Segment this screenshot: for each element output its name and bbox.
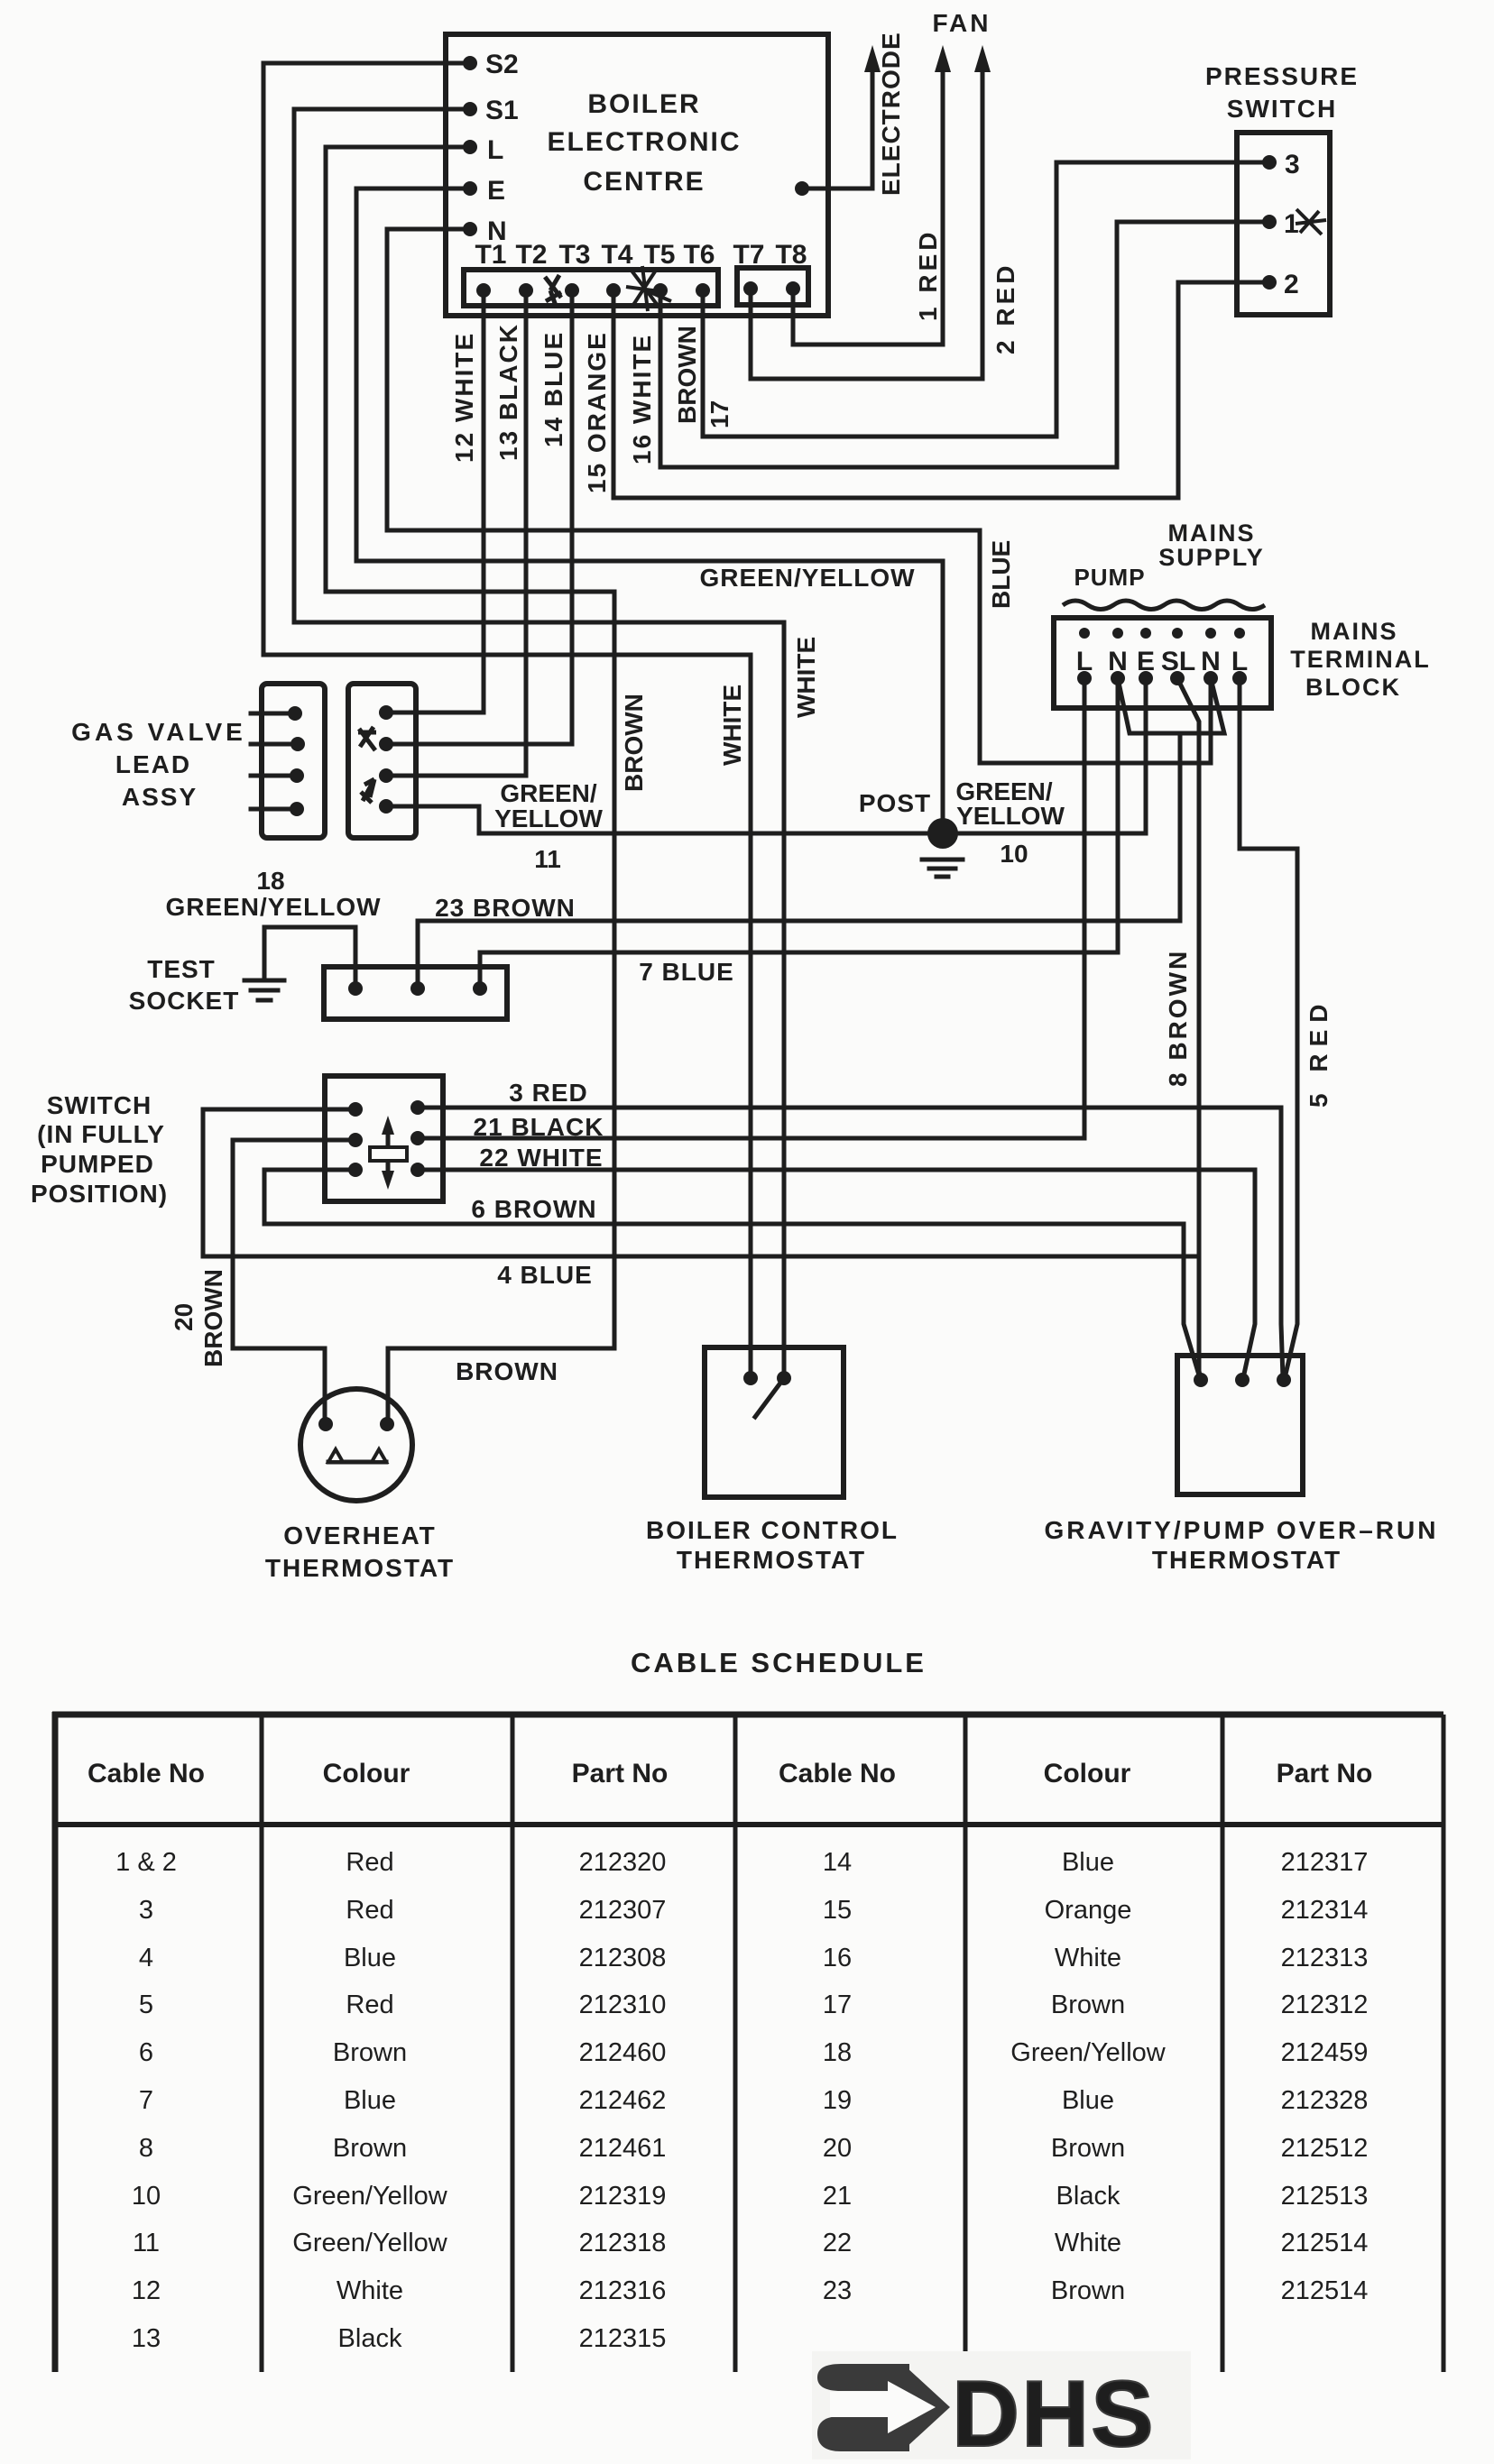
svg-text:Orange: Orange (1045, 1896, 1132, 1925)
svg-text:212314: 212314 (1281, 1896, 1369, 1925)
pressure switch (1205, 62, 1359, 315)
svg-text:Red: Red (346, 1896, 393, 1925)
terminal L (463, 135, 503, 165)
svg-text:Green/Yellow: Green/Yellow (292, 2182, 447, 2211)
svg-text:MAINS: MAINS (1311, 618, 1398, 645)
svg-text:212310: 212310 (579, 1991, 667, 2019)
wire 4 blue (203, 1109, 1199, 1256)
wire T7 2 red to fan (751, 56, 982, 379)
arrowhead fan 2 (974, 45, 991, 72)
svg-text:WHITE: WHITE (792, 637, 820, 718)
svg-text:SWITCH: SWITCH (47, 1091, 152, 1119)
svg-text:14 BLUE: 14 BLUE (539, 331, 567, 447)
svg-text:Blue: Blue (1062, 1848, 1114, 1877)
svg-text:SUPPLY: SUPPLY (1158, 544, 1265, 571)
wire S2 run (263, 63, 751, 1378)
svg-text:5 RED: 5 RED (1305, 998, 1333, 1108)
svg-text:GREEN/: GREEN/ (500, 779, 597, 807)
svg-text:Black: Black (338, 2324, 402, 2353)
svg-text:GREEN/YELLOW: GREEN/YELLOW (699, 564, 915, 592)
svg-text:15: 15 (823, 1896, 852, 1925)
svg-text:CABLE SCHEDULE: CABLE SCHEDULE (631, 1647, 927, 1678)
svg-text:17: 17 (823, 1991, 852, 2019)
svg-text:TEST: TEST (147, 955, 216, 983)
svg-text:Brown: Brown (333, 2134, 407, 2163)
post earth symbol (922, 860, 963, 877)
overheat thermostat (300, 1389, 412, 1501)
svg-text:THERMOSTAT: THERMOSTAT (677, 1546, 866, 1574)
svg-text:Colour: Colour (1044, 1759, 1131, 1788)
svg-text:Blue: Blue (344, 2086, 396, 2115)
svg-text:4 BLUE: 4 BLUE (497, 1261, 593, 1289)
svg-text:BROWN: BROWN (199, 1269, 227, 1367)
svg-text:1 RED: 1 RED (914, 229, 942, 321)
svg-text:8: 8 (139, 2134, 153, 2163)
svg-text:16 WHITE: 16 WHITE (628, 334, 656, 464)
svg-text:11: 11 (133, 2229, 160, 2257)
svg-text:212312: 212312 (1281, 1991, 1369, 2019)
svg-text:T4: T4 (601, 240, 632, 270)
electrode node and wire (795, 181, 809, 196)
hand-drawn mark near T2/T3 (545, 275, 561, 306)
test socket earth symbol (244, 980, 284, 1000)
svg-text:GRAVITY/PUMP OVER–RUN: GRAVITY/PUMP OVER–RUN (1045, 1516, 1439, 1544)
svg-text:BROWN: BROWN (456, 1357, 558, 1385)
svg-text:16: 16 (823, 1944, 852, 1972)
svg-text:212308: 212308 (579, 1944, 667, 1972)
gravity/pump over-run thermostat (1177, 1356, 1303, 1494)
svg-text:T3: T3 (558, 240, 590, 270)
switch actuator double arrow (370, 1116, 407, 1190)
table left column rows (115, 1848, 666, 2353)
svg-text:212460: 212460 (579, 2038, 667, 2067)
svg-text:2: 2 (1284, 270, 1299, 299)
wire 7 blue (480, 678, 1118, 988)
svg-text:MAINS: MAINS (1168, 519, 1256, 547)
svg-text:White: White (1055, 2229, 1121, 2257)
wire supply L 5 red (1240, 678, 1297, 1378)
svg-text:20: 20 (170, 1303, 198, 1331)
svg-text:TERMINAL: TERMINAL (1290, 646, 1430, 673)
svg-text:3 RED: 3 RED (509, 1079, 587, 1107)
svg-text:L: L (487, 135, 503, 165)
svg-text:212307: 212307 (579, 1896, 667, 1925)
svg-text:5: 5 (139, 1991, 153, 2019)
wire 6 brown (264, 1170, 1200, 1378)
terminal E (463, 176, 505, 206)
svg-text:22 WHITE: 22 WHITE (479, 1144, 603, 1172)
terminal S1 (463, 96, 519, 125)
svg-text:Brown: Brown (1051, 2134, 1125, 2163)
wire SL 8 brown (1177, 678, 1201, 1380)
svg-text:212317: 212317 (1281, 1848, 1369, 1877)
DHS logo (812, 2351, 1191, 2464)
svg-text:S1: S1 (485, 96, 519, 125)
svg-text:Part No: Part No (572, 1759, 669, 1788)
wire T5 16 white (660, 222, 1269, 467)
svg-text:BLUE: BLUE (987, 540, 1015, 609)
svg-text:GAS VALVE: GAS VALVE (71, 718, 246, 746)
svg-text:14: 14 (823, 1848, 852, 1877)
svg-text:THERMOSTAT: THERMOSTAT (1152, 1546, 1342, 1574)
svg-text:BROWN: BROWN (673, 326, 701, 424)
svg-text:WHITE: WHITE (718, 685, 746, 766)
wire T8 1 red to fan (793, 56, 943, 345)
wire N run blue (387, 229, 1211, 763)
switch box (325, 1076, 443, 1201)
svg-text:7 BLUE: 7 BLUE (639, 958, 734, 986)
wire T1 12 white (386, 290, 484, 713)
svg-text:Cable No: Cable No (779, 1759, 896, 1788)
svg-text:23 BROWN: 23 BROWN (435, 894, 576, 922)
svg-text:4: 4 (139, 1944, 153, 1972)
svg-text:PRESSURE: PRESSURE (1205, 62, 1359, 90)
svg-text:15 ORANGE: 15 ORANGE (583, 331, 611, 493)
wire T6 brown 17 (703, 162, 1269, 437)
svg-text:21 BLACK: 21 BLACK (474, 1113, 604, 1141)
svg-text:12: 12 (132, 2276, 161, 2305)
svg-text:THERMOSTAT: THERMOSTAT (265, 1554, 455, 1582)
svg-text:1 & 2: 1 & 2 (115, 1848, 177, 1877)
svg-text:Cable No: Cable No (88, 1759, 205, 1788)
svg-text:18: 18 (823, 2038, 852, 2067)
svg-text:212459: 212459 (1281, 2038, 1369, 2067)
terminal N (463, 216, 507, 246)
svg-text:13 BLACK: 13 BLACK (494, 323, 522, 461)
svg-text:10: 10 (1000, 840, 1028, 868)
post earth node (927, 818, 958, 849)
svg-text:212316: 212316 (579, 2276, 667, 2305)
svg-text:Brown: Brown (1051, 1991, 1125, 2019)
gas valve connector box 2 (348, 684, 416, 838)
svg-text:22: 22 (823, 2229, 852, 2257)
svg-text:212318: 212318 (579, 2229, 667, 2257)
svg-text:Part No: Part No (1277, 1759, 1373, 1788)
svg-text:212328: 212328 (1281, 2086, 1369, 2115)
svg-text:212313: 212313 (1281, 1944, 1369, 1972)
svg-text:212512: 212512 (1281, 2134, 1369, 2163)
svg-text:PUMPED: PUMPED (41, 1150, 154, 1178)
wire T4 15 orange (613, 282, 1269, 498)
terminal S2 (463, 50, 519, 79)
svg-text:BOILER CONTROL: BOILER CONTROL (646, 1516, 899, 1544)
hand-drawn X mark in connector box 2 (358, 727, 376, 750)
svg-text:6: 6 (139, 2038, 153, 2067)
boiler control thermostat (705, 1347, 844, 1497)
svg-text:T5: T5 (643, 240, 675, 270)
table right column rows (823, 1848, 1369, 2305)
svg-text:BOILER: BOILER (587, 89, 700, 119)
terminal strip T1-T6 (464, 240, 718, 306)
svg-text:212514: 212514 (1281, 2276, 1369, 2305)
svg-text:17: 17 (705, 400, 733, 428)
terminal strip T7-T8 (733, 240, 808, 305)
svg-text:3: 3 (139, 1896, 153, 1925)
svg-text:GREEN/YELLOW: GREEN/YELLOW (165, 893, 381, 921)
svg-text:OVERHEAT: OVERHEAT (283, 1522, 437, 1549)
svg-text:10: 10 (132, 2182, 161, 2211)
svg-text:Brown: Brown (333, 2038, 407, 2067)
wire E to post 10 (943, 678, 1146, 833)
svg-text:18: 18 (256, 867, 284, 895)
brace wavy line above mains block (1063, 601, 1265, 610)
svg-text:BROWN: BROWN (620, 694, 648, 792)
svg-text:ELECTRONIC: ELECTRONIC (548, 127, 742, 157)
svg-text:11: 11 (534, 845, 561, 873)
svg-text:19: 19 (823, 2086, 852, 2115)
svg-text:PUMP: PUMP (1074, 564, 1145, 591)
hand-drawn mark at pressure switch 1 (1296, 209, 1326, 234)
svg-text:8 BROWN: 8 BROWN (1164, 949, 1192, 1087)
svg-text:S2: S2 (485, 50, 519, 79)
test socket box (324, 967, 507, 1019)
wire T2 13 black (386, 290, 526, 776)
svg-text:Colour: Colour (323, 1759, 410, 1788)
svg-text:Green/Yellow: Green/Yellow (1010, 2038, 1166, 2067)
wire 11 green/yellow to post (386, 806, 943, 833)
wire 22 white (418, 1170, 1255, 1378)
svg-text:YELLOW: YELLOW (494, 804, 603, 832)
cable schedule table grid (52, 1712, 1443, 2372)
mains terminal block (1054, 618, 1271, 708)
wire L run brown (326, 147, 614, 1424)
svg-text:Brown: Brown (1051, 2276, 1125, 2305)
svg-text:Blue: Blue (344, 1944, 396, 1972)
svg-text:White: White (1055, 1944, 1121, 1972)
wire E run green/yellow (356, 188, 943, 833)
svg-text:212514: 212514 (1281, 2229, 1369, 2257)
svg-text:Black: Black (1056, 2182, 1120, 2211)
svg-text:SOCKET: SOCKET (129, 987, 240, 1015)
wire pump L to 21 black (418, 678, 1084, 1138)
svg-text:YELLOW: YELLOW (956, 802, 1065, 830)
svg-text:3: 3 (1285, 150, 1300, 179)
svg-text:212513: 212513 (1281, 2182, 1369, 2211)
arrowhead fan 1 (935, 45, 951, 72)
hand-drawn star mark at T5 (626, 266, 671, 311)
wire S1 run (294, 109, 784, 1378)
svg-text:20: 20 (823, 2134, 852, 2163)
table headers (88, 1759, 1372, 1788)
svg-text:ELECTRODE: ELECTRODE (877, 32, 905, 196)
svg-text:212319: 212319 (579, 2182, 667, 2211)
svg-text:SWITCH: SWITCH (1227, 95, 1337, 123)
svg-text:13: 13 (132, 2324, 161, 2353)
arrowhead electrode (864, 45, 881, 72)
svg-text:6 BROWN: 6 BROWN (471, 1195, 596, 1223)
boiler electronic centre box (446, 34, 828, 316)
svg-text:Blue: Blue (1062, 2086, 1114, 2115)
svg-text:212461: 212461 (579, 2134, 667, 2163)
gas valve connector box 1 (251, 684, 325, 838)
svg-text:CENTRE: CENTRE (583, 167, 705, 197)
svg-text:212315: 212315 (579, 2324, 667, 2353)
svg-text:212320: 212320 (579, 1848, 667, 1877)
svg-text:12 WHITE: 12 WHITE (450, 332, 478, 463)
wire 20 brown (233, 1140, 355, 1424)
svg-text:FAN: FAN (933, 9, 991, 37)
svg-text:T2: T2 (515, 240, 547, 270)
svg-text:Red: Red (346, 1848, 393, 1877)
svg-text:DHS: DHS (952, 2362, 1156, 2464)
svg-text:White: White (337, 2276, 403, 2305)
svg-text:BLOCK: BLOCK (1305, 674, 1401, 701)
svg-text:2 RED: 2 RED (991, 262, 1019, 354)
svg-text:212462: 212462 (579, 2086, 667, 2115)
svg-text:E: E (487, 176, 505, 206)
svg-text:Green/Yellow: Green/Yellow (292, 2229, 447, 2257)
svg-text:ASSY: ASSY (122, 783, 198, 811)
svg-text:T1: T1 (475, 240, 506, 270)
wire 18 green/yellow with earth (264, 927, 355, 988)
svg-text:Red: Red (346, 1991, 393, 2019)
wire T3 14 blue (386, 290, 572, 744)
svg-text:23: 23 (823, 2276, 852, 2305)
svg-text:POST: POST (859, 789, 931, 817)
svg-text:21: 21 (823, 2182, 852, 2211)
wire N link pump N to supply N (1118, 678, 1224, 733)
svg-text:POSITION): POSITION) (31, 1180, 168, 1208)
svg-text:LEAD: LEAD (115, 750, 191, 778)
hand-drawn arrow mark in connector box 2 (361, 779, 374, 803)
svg-text:7: 7 (139, 2086, 153, 2115)
svg-text:(IN FULLY: (IN FULLY (37, 1120, 165, 1148)
wire 3 red (418, 1108, 1283, 1378)
svg-text:T6: T6 (683, 240, 715, 270)
wire 23 brown (418, 733, 1180, 988)
